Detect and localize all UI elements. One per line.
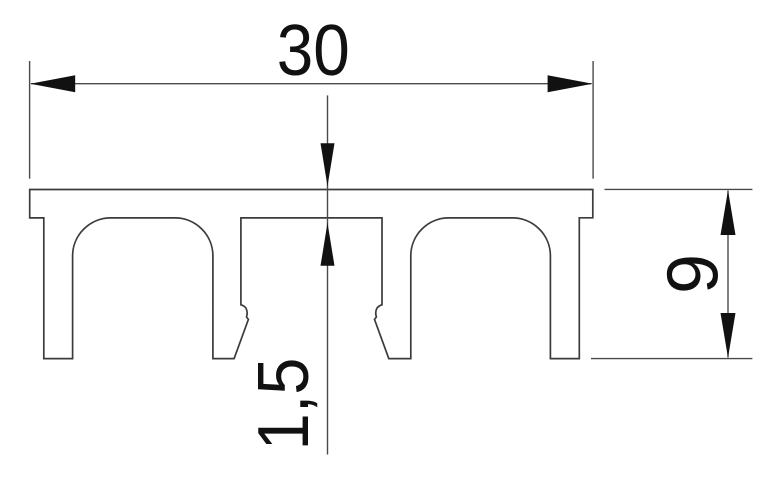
dim 30: right arrowhead — [548, 75, 593, 92]
dim 30: left arrowhead — [30, 75, 75, 92]
dim 9: top arrowhead (points up) — [721, 190, 736, 235]
dim 1,5: lower arrowhead (points up) — [321, 223, 335, 266]
dim 30: left extension line — [29, 61, 31, 179]
dim 30: dimension line — [31, 83, 592, 85]
dim 9: bottom arrowhead (points down) — [721, 313, 736, 358]
dim 9: vertical dimension line — [727, 191, 729, 358]
dim 1,5: vertical dimension line — [327, 95, 329, 454]
svg-text:9: 9 — [654, 254, 734, 294]
dim 9: top extension line — [605, 188, 753, 190]
profile outline (extrusion cross-section) — [30, 190, 593, 359]
dim 9: bottom extension line — [591, 358, 752, 360]
svg-text:1,5: 1,5 — [244, 358, 324, 451]
dim 1,5: upper arrowhead (points down) — [321, 143, 335, 186]
dim 30: right extension line — [592, 61, 594, 179]
svg-text:30: 30 — [277, 11, 350, 91]
